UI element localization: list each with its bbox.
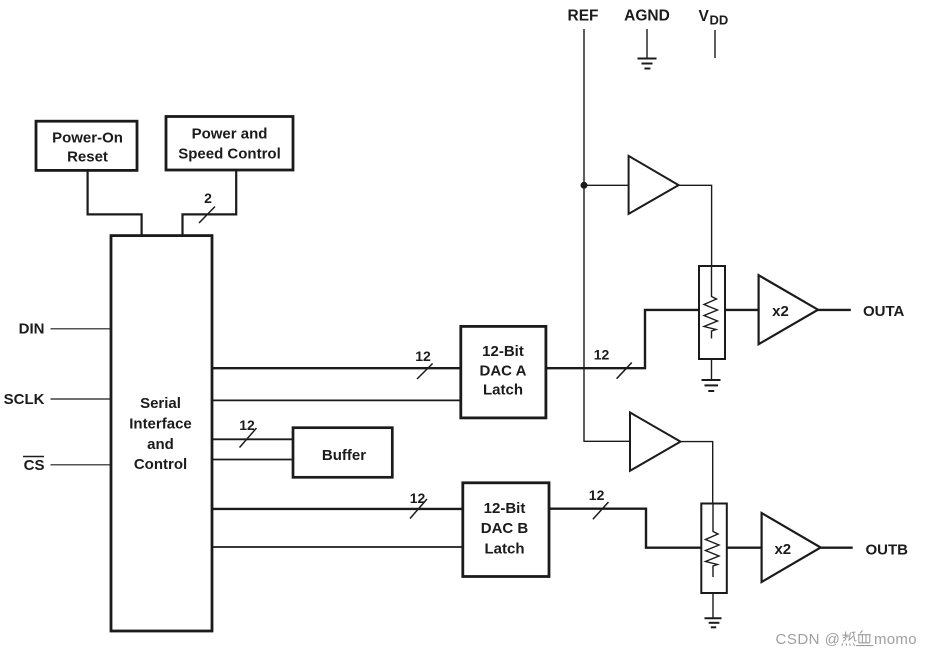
amp x2 B bbox=[762, 513, 821, 582]
wire VDD stub bbox=[714, 30, 716, 58]
svg-text:Power-On: Power-On bbox=[52, 129, 123, 146]
wire REF to op-amp B bbox=[584, 440, 630, 442]
svg-text:momo: momo bbox=[874, 631, 917, 648]
wire control to DAC B latch lower bbox=[212, 546, 464, 548]
bus slash 12 DAC A input bbox=[417, 364, 433, 380]
svg-text:DIN: DIN bbox=[19, 321, 45, 338]
wire Power-On Reset to control bbox=[88, 170, 142, 236]
svg-text:12: 12 bbox=[594, 347, 610, 363]
block Buffer bbox=[293, 428, 392, 478]
wire OUTA bbox=[818, 309, 851, 311]
bus slash 12 DAC A output bbox=[617, 363, 632, 379]
svg-text:12: 12 bbox=[239, 417, 255, 433]
watermark glyph re (hot) bbox=[842, 632, 857, 646]
svg-text:AGND: AGND bbox=[624, 8, 670, 25]
wire Power and Speed Control to control bbox=[183, 170, 237, 236]
svg-text:CSDN @: CSDN @ bbox=[776, 631, 841, 648]
svg-text:12: 12 bbox=[410, 490, 426, 506]
box Power-On Reset bbox=[36, 121, 137, 170]
wire CS bbox=[51, 464, 113, 466]
svg-text:Power and: Power and bbox=[192, 125, 268, 142]
box Power and Speed Control bbox=[166, 117, 293, 171]
resistor R-A element bbox=[704, 266, 718, 339]
svg-text:Control: Control bbox=[134, 456, 187, 473]
svg-text:DAC A: DAC A bbox=[480, 362, 527, 379]
svg-text:Serial: Serial bbox=[140, 395, 181, 412]
svg-text:12-Bit: 12-Bit bbox=[482, 343, 524, 360]
bus DAC B latch to resistor divider B bbox=[549, 509, 701, 548]
resistor divider A box bbox=[699, 266, 725, 359]
ground divider A bbox=[702, 359, 721, 391]
svg-text:x2: x2 bbox=[774, 541, 791, 558]
svg-text:SCLK: SCLK bbox=[4, 391, 45, 408]
bus slash 12 DAC B input bbox=[410, 499, 427, 519]
svg-text:Interface: Interface bbox=[129, 416, 192, 433]
bus control to DAC A latch bbox=[212, 367, 462, 369]
amp x2 A bbox=[759, 275, 818, 344]
wire control to buffer upper bbox=[212, 438, 295, 440]
op-amp reference buffer A bbox=[629, 156, 679, 214]
wire op-amp A output bbox=[679, 185, 712, 266]
wire control to DAC A latch lower bbox=[212, 399, 462, 401]
block 12-Bit DAC B Latch bbox=[463, 483, 549, 577]
svg-text:12: 12 bbox=[415, 348, 431, 364]
wire divider B tap to x2 B bbox=[727, 547, 763, 549]
wire REF vertical bbox=[583, 29, 585, 442]
wire op-amp B output bbox=[681, 442, 713, 504]
wire SCLK bbox=[51, 398, 113, 400]
wire REF to op-amp A bbox=[584, 184, 629, 186]
svg-text:Reset: Reset bbox=[67, 149, 108, 166]
svg-text:OUTA: OUTA bbox=[863, 303, 905, 320]
svg-text:Latch: Latch bbox=[483, 382, 523, 399]
svg-text:REF: REF bbox=[568, 8, 599, 25]
bus slash 2 bbox=[199, 207, 215, 224]
ground AGND bbox=[638, 59, 657, 69]
svg-text:and: and bbox=[147, 436, 174, 453]
wire control to buffer lower bbox=[212, 459, 295, 461]
svg-text:DAC B: DAC B bbox=[481, 520, 529, 537]
watermark glyph xue (blood) bbox=[856, 630, 874, 645]
block 12-Bit DAC A Latch bbox=[461, 326, 546, 418]
bus control to DAC B latch bbox=[212, 508, 464, 510]
svg-text:DD: DD bbox=[710, 13, 729, 28]
svg-text:12: 12 bbox=[589, 487, 605, 503]
bus slash 12 buffer bbox=[240, 428, 257, 448]
wire DIN bbox=[51, 328, 113, 330]
svg-text:12-Bit: 12-Bit bbox=[484, 500, 526, 517]
svg-text:2: 2 bbox=[204, 190, 212, 206]
svg-text:Latch: Latch bbox=[484, 540, 524, 557]
bus DAC A latch to resistor divider A bbox=[546, 310, 699, 368]
resistor divider B box bbox=[701, 504, 727, 594]
svg-text:CS: CS bbox=[24, 457, 45, 474]
op-amp reference buffer B bbox=[630, 413, 681, 471]
block Serial Interface and Control bbox=[111, 236, 212, 631]
resistor R-B element bbox=[706, 504, 720, 578]
svg-text:OUTB: OUTB bbox=[866, 542, 909, 559]
wire AGND stub bbox=[646, 29, 648, 58]
svg-text:V: V bbox=[699, 8, 710, 25]
bus slash 12 DAC B output bbox=[593, 502, 609, 519]
wire divider A tap to x2 A bbox=[725, 309, 760, 311]
svg-text:Speed Control: Speed Control bbox=[178, 146, 281, 163]
wire OUTB bbox=[821, 547, 853, 549]
ground divider B bbox=[705, 593, 722, 627]
junction node REF bbox=[581, 182, 588, 189]
svg-text:Buffer: Buffer bbox=[322, 447, 366, 464]
svg-text:x2: x2 bbox=[772, 303, 789, 320]
